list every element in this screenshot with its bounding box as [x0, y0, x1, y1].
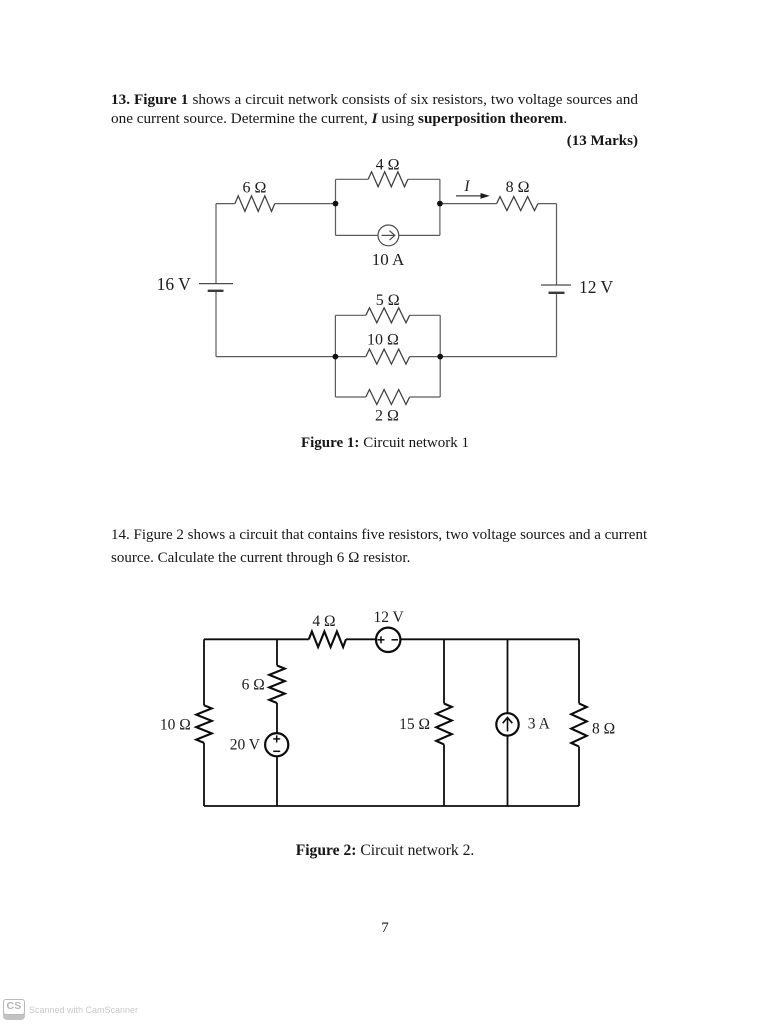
Question 14 text: [111, 524, 651, 570]
wire: 8-ohm to right corner: [538, 203, 557, 205]
voltage source 20V minus sign: [273, 750, 280, 752]
svg-text:2 Ω: 2 Ω: [375, 407, 399, 424]
wire: branch4 top lead of 3A source: [507, 639, 509, 713]
svg-text:I: I: [463, 178, 470, 195]
wire: top wire left of 4-ohm: [204, 638, 309, 640]
wire: right vertical bottom (battery V2 bottom lead): [556, 293, 558, 357]
wire: left edge top lead of 10-ohm: [203, 639, 205, 705]
resistor 2-ohm body: [366, 390, 410, 405]
wire: bottom parallel box right edge: [439, 315, 441, 397]
svg-text:12 V: 12 V: [579, 277, 614, 297]
current source 3A circle: [496, 713, 518, 735]
battery V1 16V short plate: [208, 290, 224, 292]
resistor 6-ohm body: [235, 196, 275, 212]
wire: 2-ohm branch right lead: [410, 396, 441, 398]
wire: branch2 6-ohm to 20V source: [276, 703, 278, 733]
svg-text:4 Ω: 4 Ω: [312, 613, 335, 630]
current source 3A arrow: [503, 718, 513, 732]
current I arrow: [456, 193, 490, 199]
wire: 5-ohm branch left lead: [335, 314, 365, 316]
CamScanner footer badge: [3, 999, 25, 1020]
voltage source 20V circle: [265, 733, 288, 756]
Figure 2 caption: [0, 842, 770, 860]
resistor 4-ohm body (horizontal): [309, 632, 346, 648]
svg-text:10 A: 10 A: [372, 250, 405, 269]
resistor 4-ohm body: [368, 172, 408, 187]
resistor 10-ohm body (vertical): [196, 705, 212, 743]
svg-text:4 Ω: 4 Ω: [376, 156, 400, 173]
voltage source 20V plus sign: [273, 735, 280, 742]
resistor 8-ohm body: [497, 197, 538, 211]
wire: bottom bus right segment: [410, 356, 557, 358]
wire: right edge bottom lead of 8-ohm: [578, 747, 580, 806]
wire: parallel box left edge: [335, 179, 337, 235]
wire: branch4 bottom lead of 3A source: [507, 736, 509, 806]
wire: left vertical bottom (battery V1 bottom lead): [215, 291, 217, 357]
node B junction dot: [437, 201, 443, 207]
resistor 5-ohm body: [366, 308, 410, 323]
svg-text:15 Ω: 15 Ω: [399, 716, 430, 733]
CamScanner footer text: [29, 1005, 138, 1015]
wire: bottom branch left lead of current source: [336, 234, 379, 236]
current source 10A circle: [378, 225, 399, 246]
resistor 8-ohm body (vertical): [571, 703, 587, 746]
wire: left edge bottom lead of 10-ohm: [203, 743, 205, 806]
battery V2 12V long plate: [541, 284, 571, 286]
wire: branch3 bottom lead of 15-ohm: [443, 744, 445, 806]
svg-text:3 A: 3 A: [528, 716, 551, 733]
wire: 2-ohm branch left lead: [335, 396, 365, 398]
current source 10A arrow: [382, 231, 395, 240]
svg-text:10 Ω: 10 Ω: [160, 716, 191, 733]
svg-text:6 Ω: 6 Ω: [243, 179, 267, 196]
resistor 15-ohm body (vertical): [436, 704, 452, 745]
svg-text:10 Ω: 10 Ω: [367, 332, 399, 349]
wire: branch2 top lead of 6-ohm: [276, 639, 278, 665]
voltage source 12V circle: [376, 628, 400, 652]
svg-text:8 Ω: 8 Ω: [506, 179, 530, 196]
wire: left vertical top (battery V1 top lead): [215, 204, 217, 284]
wire: top wire right of 12V source: [400, 638, 579, 640]
node D junction dot (bottom right): [437, 354, 443, 360]
resistor 10-ohm body: [366, 349, 410, 364]
wire: bottom bus left segment: [216, 356, 366, 358]
voltage source 12V plus sign: [378, 636, 385, 643]
wire: top branch right lead of 4-ohm: [408, 178, 440, 180]
wire: 6-ohm to node A: [275, 203, 336, 205]
wire: branch3 top lead of 15-ohm: [443, 639, 445, 703]
node C junction dot (bottom left): [333, 354, 339, 360]
wire: bottom parallel box left edge: [334, 315, 336, 397]
wire: top branch left lead of 4-ohm: [336, 178, 369, 180]
wire: bottom branch right lead of current source: [399, 234, 440, 236]
wire: top wire 4-ohm to 12V source: [346, 638, 376, 640]
wire: top-left horizontal to 6-ohm: [216, 203, 235, 205]
Question 13 text: [111, 90, 638, 128]
svg-text:5 Ω: 5 Ω: [376, 292, 400, 309]
wire: 5-ohm branch right lead: [410, 314, 441, 316]
wire: right vertical top (battery V2 top lead): [556, 204, 558, 285]
page number 7: [0, 920, 770, 937]
svg-text:6 Ω: 6 Ω: [242, 677, 265, 694]
node A junction dot: [333, 201, 339, 207]
wire: parallel box right edge: [439, 179, 441, 235]
battery V2 12V short plate: [549, 292, 565, 294]
svg-text:20 V: 20 V: [230, 737, 261, 754]
svg-text:12 V: 12 V: [373, 609, 404, 626]
resistor 6-ohm body (vertical): [269, 666, 285, 704]
wire: bottom wire: [204, 805, 579, 807]
voltage source 12V minus sign: [392, 639, 399, 641]
svg-text:8 Ω: 8 Ω: [592, 720, 615, 737]
svg-text:16 V: 16 V: [157, 274, 192, 294]
wire: right edge top lead of 8-ohm: [578, 639, 580, 703]
wire: node B to 8-ohm: [440, 203, 497, 205]
Figure 1 caption: [0, 435, 770, 452]
wire: branch2 below 20V source: [276, 756, 278, 806]
battery V1 16V long plate: [199, 283, 233, 285]
